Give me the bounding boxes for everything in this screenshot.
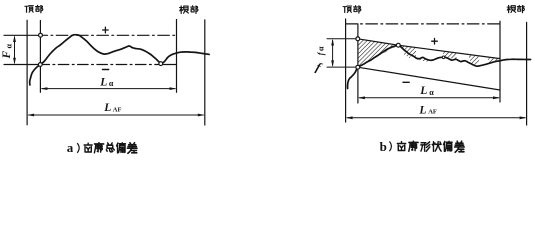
wire left inner extension line (b) — [357, 24, 359, 103]
wire right outer extension line (a) — [204, 20, 206, 125]
wire L-AF dimension line (a) — [29, 114, 204, 116]
node contact circle mid on slant line (b) — [396, 43, 400, 47]
node upper design profile line (a) solid part — [4, 34, 43, 36]
node plus sign (a) — [103, 27, 109, 33]
node lower facsimile slant line (b) — [358, 67, 500, 90]
wire F-alpha dimension line (a) — [14, 37, 16, 63]
node lower design profile line (a) solid part — [4, 64, 43, 66]
hatch region right end (b) — [487, 58, 500, 63]
wire right inner extension line (a) — [176, 20, 178, 93]
hatch region after mid circle (b) — [398, 45, 416, 57]
svg-text:b: b — [380, 139, 387, 154]
svg-text:L: L — [419, 85, 427, 97]
node upper design profile dash-dot line (a) — [44, 34, 177, 36]
svg-text:L: L — [99, 77, 107, 89]
hatch region mid bumps (b) — [441, 51, 457, 59]
label top-tip text a (顶部) — [25, 6, 33, 13]
trace actual profile curve (a) — [30, 35, 209, 85]
label top-tip text b (顶部) — [343, 6, 351, 12]
node contact circle top-left (a) — [39, 33, 43, 37]
node contact circle bottom-left (b) — [356, 65, 360, 69]
label root text b (根部) — [507, 5, 515, 12]
svg-text:α: α — [317, 46, 326, 51]
wire L-AF dimension line (b) — [347, 117, 525, 119]
wire L-AF arrowheads (a) — [27, 114, 205, 117]
svg-text:F: F — [1, 51, 13, 60]
node contact circle top-left (b) — [356, 37, 360, 41]
wire L-AF arrowheads (b) — [346, 116, 527, 119]
node lower design profile line right solid (a) — [158, 64, 177, 66]
svg-text:L: L — [103, 102, 111, 114]
svg-text:AF: AF — [428, 109, 437, 116]
wire f-f-alpha upper extension line (b) — [327, 38, 356, 40]
node contact circle bottom-mid (a) — [159, 62, 163, 66]
node lower design profile dash-dot line (a) — [44, 64, 158, 66]
node plus sign (b) — [432, 38, 438, 44]
label root text a (根部) — [180, 6, 189, 14]
svg-text:α: α — [4, 44, 13, 49]
node top dash-dot reference line (b) — [346, 23, 500, 25]
svg-text:α: α — [429, 88, 434, 97]
wire f-f-alpha lower extension line (b) — [327, 66, 356, 68]
trace actual profile curve (b) — [348, 45, 531, 88]
wire left outer extension line (a) — [26, 20, 28, 125]
node contact circle bottom-left (a) — [38, 63, 42, 67]
wire left outer extension line (b) — [345, 19, 347, 122]
wire L-alpha dimension line (b) — [360, 97, 499, 99]
wire f-f-alpha dimension line (b) — [332, 41, 334, 66]
wire right inner extension line (b) — [499, 21, 501, 102]
wire F-alpha arrowheads (a) — [13, 35, 16, 64]
node minus sign (a) — [103, 69, 109, 71]
hatch marks below trace at mid dip (b) — [417, 57, 429, 62]
hatch marks below trace after mid circle (b) — [403, 52, 412, 59]
node minus sign (b) — [403, 81, 409, 83]
label F-alpha (a) rotated — [1, 44, 13, 60]
wire L-alpha arrowheads (a) — [40, 87, 176, 90]
hatch region between slant line and trace left triangle (b) — [358, 39, 399, 67]
node upper facsimile slant line (b) — [358, 39, 500, 59]
wire L-alpha arrowheads (b) — [358, 96, 500, 99]
svg-text:a: a — [67, 140, 74, 155]
hatch region over trough (b) — [468, 55, 480, 66]
wire left inner extension line (a) — [39, 21, 41, 93]
node small circle on trace bump (b) — [442, 56, 445, 59]
svg-text:L: L — [418, 104, 426, 116]
wire L-alpha dimension line (a) — [42, 88, 175, 90]
wire f-f-alpha arrowheads (b) — [331, 39, 334, 67]
svg-text:AF: AF — [113, 107, 122, 114]
svg-text:α: α — [109, 79, 114, 88]
wire right outer extension line (b) — [526, 22, 528, 125]
